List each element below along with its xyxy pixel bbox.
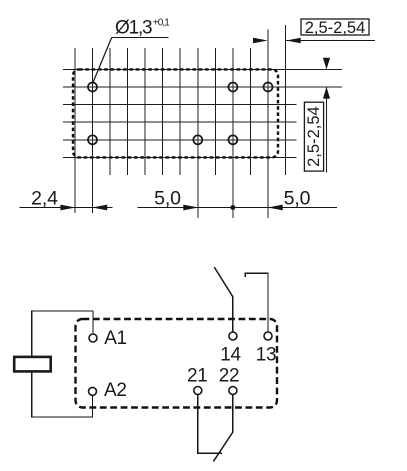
svg-text:2,5-2,54: 2,5-2,54 [305, 19, 366, 37]
svg-text:22: 22 [219, 365, 240, 386]
svg-text:A1: A1 [104, 328, 127, 349]
relay coil [14, 357, 51, 372]
boxed value label 2,5-2,54 (vertical pitch, rotated) [304, 102, 323, 171]
drill hole A2 (bottom-left) [88, 135, 97, 144]
vertical pitch dimension upper arrowhead [323, 58, 330, 70]
leader line for hole diameter callout [93, 38, 169, 83]
pin 21 terminal [194, 387, 202, 395]
contact blade of pin 14 [214, 267, 233, 297]
pin A2 terminal [89, 387, 97, 395]
wire from pin 13 (fixed contact) [245, 273, 268, 332]
horizontal pitch dimension left arrowhead [253, 38, 268, 44]
dimension 2,4 left arrowhead [60, 205, 75, 211]
drill hole 22 (bottom row) [228, 135, 237, 144]
wire from pin 14 (moving contact) [232, 296, 234, 332]
bottom dimension line, left segment [20, 207, 113, 209]
pin 14 terminal [229, 332, 237, 340]
wire from pin 22 (moving contact) [232, 395, 234, 433]
svg-text:13: 13 [256, 344, 277, 365]
svg-text:A2: A2 [104, 380, 127, 401]
pin 22 terminal [229, 387, 237, 395]
dimension 5,0 (right) arrowhead [268, 205, 283, 211]
drill hole 13 (top row) [264, 83, 273, 92]
svg-text:2,5-2,54: 2,5-2,54 [305, 106, 323, 167]
svg-text:Ø1,3: Ø1,3 [115, 18, 152, 39]
PCB drilling-plan grid: vertical lines (2,5-2,54 mm pitch) [75, 25, 286, 218]
boxed value label 2,5-2,54 (horizontal pitch) [301, 19, 369, 35]
horizontal pitch dimension right arrowhead [286, 38, 301, 44]
drill hole 21 (bottom row) [193, 135, 202, 144]
bottom dimension line, right segment [138, 207, 338, 209]
svg-text:21: 21 [187, 365, 208, 386]
dimension 2,4 right arrowhead [92, 205, 107, 211]
dimension 5,0 (left) arrowhead [183, 205, 198, 211]
pin A1 terminal [89, 334, 97, 342]
drill hole A1 (top-left) [88, 83, 97, 92]
vertical pitch dimension tail line [326, 87, 328, 172]
svg-text:5,0: 5,0 [154, 188, 181, 210]
wire from pin A1 through coil to pin A2 [32, 311, 93, 417]
svg-text:2,4: 2,4 [31, 188, 58, 210]
contact blade of pin 22 [213, 432, 233, 461]
relay body outline (dashed) on schematic [76, 319, 278, 408]
relay body outline (dashed) on drilling plan [73, 69, 278, 157]
svg-text:+0,1: +0,1 [153, 18, 170, 29]
svg-text:5,0: 5,0 [284, 188, 311, 210]
svg-text:14: 14 [220, 344, 241, 365]
chained dimension junction dot [230, 205, 235, 210]
PCB drilling-plan grid: horizontal lines (2,5-2,54 mm pitch) [63, 69, 342, 157]
wire from pin 21 (fixed contact) [198, 395, 222, 454]
drill hole 14 (top row) [228, 83, 237, 92]
vertical pitch dimension lower arrowhead [323, 87, 330, 99]
pin 13 terminal [264, 332, 272, 340]
horizontal pitch dimension tail line [286, 40, 375, 42]
